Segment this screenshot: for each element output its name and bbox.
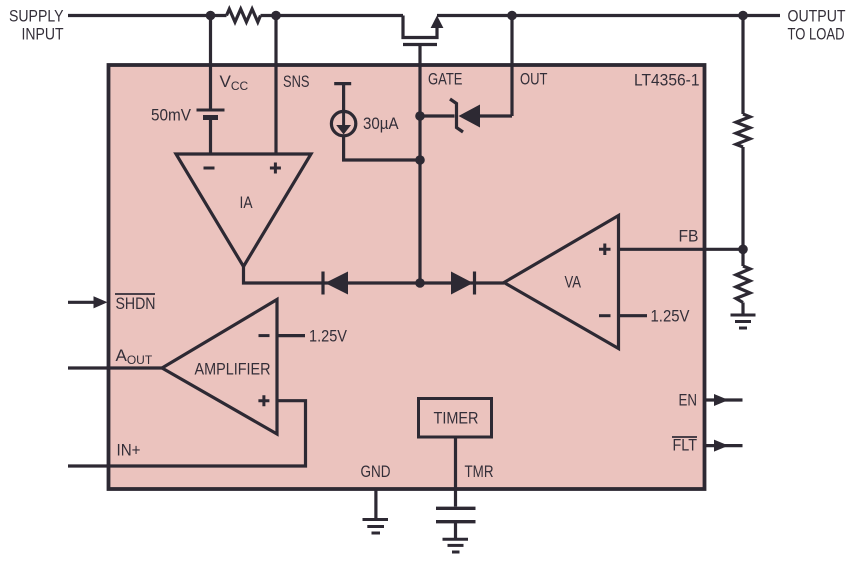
pin label AOUT: [116, 346, 153, 367]
pin SHDN input arrow: [68, 296, 108, 308]
svg-text:50mV: 50mV: [151, 106, 192, 125]
svg-text:VA: VA: [565, 273, 582, 292]
pin label GATE: [428, 70, 463, 89]
svg-text:TO LOAD: TO LOAD: [788, 25, 845, 44]
svg-text:INPUT: INPUT: [22, 25, 64, 44]
node output divider junction: [738, 11, 748, 21]
wire amplifier inverting input reference stub: [277, 334, 305, 337]
wire divider middle segment: [741, 147, 744, 266]
value label 50mV: [151, 106, 192, 125]
pin FLT output arrow: [705, 440, 743, 452]
node OUT junction: [507, 11, 517, 21]
resistor R2 (lower feedback divider): [736, 266, 750, 303]
capacitor C1 timer capacitor: [436, 508, 476, 521]
wire SNS pin drop to IA non-inverting input: [274, 16, 277, 155]
wire VA inverting input reference stub: [619, 314, 648, 317]
svg-text:GATE: GATE: [428, 70, 463, 89]
wire capacitor to ground: [454, 522, 457, 540]
ground (GND pin): [363, 520, 389, 534]
diode D2 (points right toward gate node): [451, 272, 475, 295]
resistor RSNS (sense resistor): [227, 9, 261, 22]
pin label TMR: [465, 462, 494, 481]
pin label FLT with overline: [672, 436, 697, 455]
node VCC junction: [206, 11, 216, 21]
resistor R1 (upper feedback divider): [736, 114, 750, 147]
value label 1.25V (VA reference): [651, 307, 691, 326]
wire OUT pin drop: [510, 16, 513, 117]
node SNS junction: [271, 11, 281, 21]
battery V1 50mV offset source: [197, 110, 225, 118]
svg-text:1.25V: 1.25V: [651, 307, 691, 326]
svg-text:IN+: IN+: [117, 441, 141, 460]
svg-text:IA: IA: [240, 193, 254, 212]
current source I1 30uA: [331, 84, 420, 160]
svg-text:FB: FB: [679, 227, 699, 246]
svg-text:SNS: SNS: [283, 72, 310, 91]
transistor M1 N-channel MOSFET pass device: [403, 16, 443, 45]
svg-text:OUT: OUT: [520, 70, 548, 89]
wire divider bottom segment: [741, 303, 744, 316]
block TIMER: [419, 399, 492, 438]
node SUPPLY INPUT label: [9, 7, 64, 44]
node zener / gate junction: [415, 111, 425, 121]
svg-text:EN: EN: [679, 391, 698, 410]
wire GND pin drop: [374, 489, 377, 520]
wire IA output to diode rail: [244, 267, 505, 284]
pin label EN: [679, 391, 698, 410]
svg-text:LT4356-1: LT4356-1: [634, 71, 700, 90]
svg-text:TMR: TMR: [465, 462, 494, 481]
wire top rail middle segment: [261, 14, 404, 17]
pin label OUT: [520, 70, 548, 89]
wire amplifier non-inverting input to IN+ pin: [68, 401, 306, 466]
diode D1 (points left toward IA output): [323, 272, 348, 295]
pin label SNS: [283, 72, 310, 91]
wire VCC pin drop: [209, 16, 212, 109]
pin label IN+: [117, 441, 141, 460]
wire VA non-inverting input to FB pin: [619, 248, 744, 251]
svg-text:GND: GND: [361, 462, 391, 481]
svg-text:SHDN: SHDN: [116, 294, 156, 313]
value label 1.25V (amplifier reference): [309, 327, 348, 346]
diode D3 zener clamp gate-out: [420, 99, 512, 132]
wire AOUT pin to amplifier output: [68, 366, 162, 369]
wire GATE pin vertical line: [418, 45, 421, 284]
node diode junction at gate line: [415, 278, 425, 288]
svg-text:AMPLIFIER: AMPLIFIER: [195, 360, 271, 379]
pin label VCC: [220, 72, 249, 93]
wire top rail right segment: [437, 14, 780, 17]
svg-text:OUTPUT: OUTPUT: [788, 7, 846, 26]
svg-text:1.25V: 1.25V: [309, 327, 348, 346]
ground (timer capacitor): [443, 539, 469, 552]
node current source / gate junction: [415, 155, 425, 165]
label LT4356-1: [634, 71, 700, 90]
ground (feedback divider): [731, 315, 756, 328]
IC body LT4356-1: [109, 65, 705, 489]
op-amp IA current sense amplifier: [176, 154, 311, 267]
wire top rail left segment: [68, 14, 227, 17]
svg-text:30µA: 30µA: [363, 114, 399, 133]
op-amp AMPLIFIER: [162, 300, 277, 435]
node FB junction: [738, 245, 748, 255]
pin label SHDN with overline: [115, 294, 156, 313]
svg-text:FLT: FLT: [673, 436, 698, 455]
node OUTPUT TO LOAD label: [788, 7, 846, 44]
value label 30uA: [363, 114, 399, 133]
wire output divider top segment: [741, 16, 744, 115]
wire battery to IA inverting input: [209, 120, 212, 155]
pin label FB: [679, 227, 699, 246]
wire TIMER to TMR pin: [454, 437, 457, 507]
pin label GND: [361, 462, 391, 481]
op-amp VA voltage amplifier: [504, 216, 619, 349]
svg-text:SUPPLY: SUPPLY: [9, 7, 64, 26]
pin EN output arrow: [705, 394, 743, 406]
svg-text:TIMER: TIMER: [434, 409, 479, 428]
